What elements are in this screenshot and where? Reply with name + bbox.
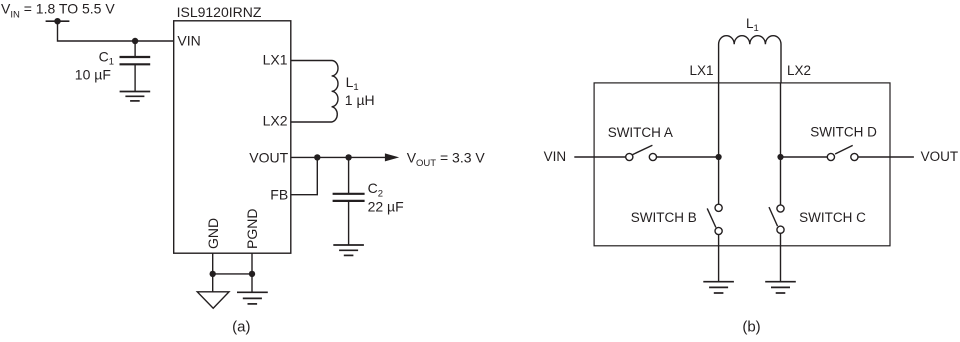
svg-text:L1: L1 xyxy=(346,74,359,93)
svg-text:VIN: VIN xyxy=(177,33,200,49)
switch C xyxy=(769,205,784,233)
block diagram box (side b) xyxy=(594,83,890,246)
capacitor C2 xyxy=(333,157,365,244)
svg-text:FB: FB xyxy=(270,187,288,203)
wire VIN input xyxy=(58,21,174,41)
svg-text:SWITCH D: SWITCH D xyxy=(810,125,877,140)
svg-text:VIN = 1.8 TO 5.5 V: VIN = 1.8 TO 5.5 V xyxy=(1,1,115,21)
label ISL9120IRNZ xyxy=(177,4,262,20)
node GND junction xyxy=(210,271,216,277)
svg-text:L1: L1 xyxy=(746,16,759,34)
node LX2 junction xyxy=(777,154,783,160)
node C1/VIN junction xyxy=(132,38,138,44)
svg-text:LX1: LX1 xyxy=(263,52,288,68)
switch A xyxy=(626,145,657,160)
label 1 uH xyxy=(345,92,375,108)
wire GND-PGND tie xyxy=(213,273,252,275)
pin label FB xyxy=(270,187,288,203)
pin label VOUT xyxy=(249,149,288,165)
ground (C1) xyxy=(120,92,151,101)
pin label GND (rotated) xyxy=(205,218,221,249)
label VOUT = 3.3 V xyxy=(407,149,486,169)
label (a) xyxy=(232,318,250,335)
svg-text:C1: C1 xyxy=(99,49,114,68)
pin label LX2 xyxy=(263,113,288,129)
node FB/VOUT junction xyxy=(314,154,320,160)
pin label LX1 xyxy=(263,52,288,68)
label SWITCH A xyxy=(608,125,673,140)
wire LX2 to switch D xyxy=(781,156,828,158)
svg-text:LX2: LX2 xyxy=(263,113,288,129)
svg-text:SWITCH B: SWITCH B xyxy=(631,210,697,225)
label VOUT (side b) xyxy=(921,149,959,164)
IC U1 ISL9120IRNZ body xyxy=(174,21,291,253)
label C2 xyxy=(368,180,383,199)
wire switch C to ground xyxy=(780,233,782,282)
label SWITCH B xyxy=(631,210,697,225)
inductor L1 (side a) with LX1/LX2 wires xyxy=(291,61,338,123)
ground triangle (GND) xyxy=(197,292,229,308)
svg-text:LX1: LX1 xyxy=(689,63,713,78)
wire PGND pin xyxy=(251,253,253,292)
label SWITCH C xyxy=(799,210,866,225)
svg-text:C2: C2 xyxy=(368,180,383,199)
svg-text:22 µF: 22 µF xyxy=(368,198,404,214)
wire switch A to LX1 xyxy=(656,156,718,158)
svg-text:10 µF: 10 µF xyxy=(75,67,111,83)
node C2/VOUT junction xyxy=(345,154,351,160)
inductor L1 (side b) xyxy=(719,36,781,83)
wire LX2 column xyxy=(780,83,782,205)
svg-text:VIN: VIN xyxy=(544,149,567,164)
svg-text:GND: GND xyxy=(205,218,221,249)
svg-text:(a): (a) xyxy=(232,318,250,335)
ground (C2) xyxy=(333,245,364,255)
svg-text:VOUT: VOUT xyxy=(921,149,959,164)
node label LX1 (side b) xyxy=(689,63,713,78)
wire switch B to ground xyxy=(718,234,720,281)
svg-text:(b): (b) xyxy=(742,318,760,335)
node VIN supply junction xyxy=(54,18,60,24)
svg-text:PGND: PGND xyxy=(244,209,260,249)
label SWITCH D xyxy=(810,125,877,140)
switch B xyxy=(707,204,722,234)
svg-text:VOUT = 3.3 V: VOUT = 3.3 V xyxy=(407,149,486,169)
wire GND pin xyxy=(212,253,214,292)
wire LX1 column xyxy=(718,83,720,204)
node LX1 junction xyxy=(716,154,722,160)
label 10 uF xyxy=(75,67,111,83)
pin label VIN xyxy=(177,33,200,49)
label L1 (side a) xyxy=(346,74,359,93)
ground (switch C) xyxy=(765,282,796,293)
arrowhead VOUT xyxy=(385,153,399,161)
label VIN (side b) xyxy=(544,149,567,164)
wire switch D to VOUT xyxy=(858,156,914,158)
svg-text:SWITCH A: SWITCH A xyxy=(608,125,673,140)
pin label PGND (rotated) xyxy=(244,209,260,249)
node label LX2 (side b) xyxy=(787,63,811,78)
label VIN = 1.8 TO 5.5 V xyxy=(1,1,115,21)
switch D xyxy=(827,145,858,160)
svg-text:LX2: LX2 xyxy=(787,63,811,78)
ground (PGND) xyxy=(237,292,268,304)
svg-text:SWITCH C: SWITCH C xyxy=(799,210,866,225)
wire VOUT xyxy=(291,156,386,158)
label (b) xyxy=(742,318,760,335)
ground (switch B) xyxy=(703,282,734,293)
node PGND junction xyxy=(249,271,255,277)
svg-text:VOUT: VOUT xyxy=(249,149,288,165)
svg-text:ISL9120IRNZ: ISL9120IRNZ xyxy=(177,4,262,20)
label C1 xyxy=(99,49,114,68)
label L1 (side b) xyxy=(746,16,759,34)
supply tap line xyxy=(46,20,70,22)
wire FB xyxy=(291,157,318,194)
label 22 uF xyxy=(368,198,404,214)
capacitor C1 xyxy=(120,41,151,91)
svg-text:1 µH: 1 µH xyxy=(345,92,375,108)
wire VIN to switch A xyxy=(574,156,626,158)
